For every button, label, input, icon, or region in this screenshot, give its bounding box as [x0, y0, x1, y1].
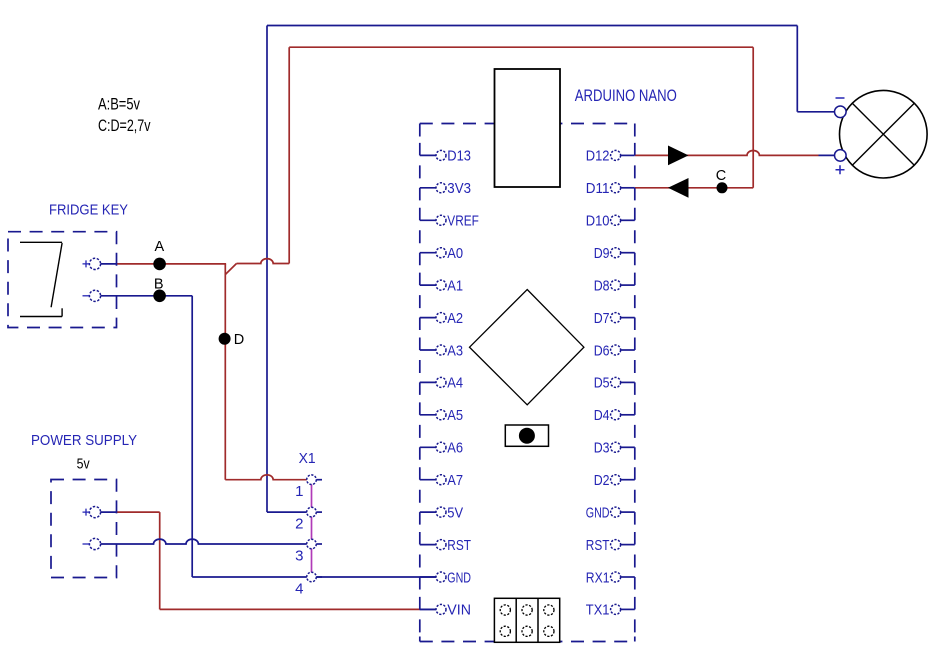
fridge key switch symbol [20, 242, 62, 316]
svg-text:2: 2 [295, 515, 303, 532]
wire: red net A, horizontal into D11 through point C [635, 187, 753, 189]
svg-text:A5: A5 [447, 407, 463, 424]
wire: blue net B, from FRIDGE KEY - terminal [101, 295, 192, 297]
wire: blue net, stub into lamp - terminal [797, 111, 834, 113]
arduino pin A2 (left) [420, 310, 463, 327]
svg-text:D5: D5 [594, 375, 610, 392]
fridge key - terminal [83, 290, 101, 301]
arduino pin D4 (right) [594, 407, 635, 424]
wire: red net A, horizontal into X1 pin 1 with hop [225, 475, 307, 480]
arduino pin VIN (left) [420, 602, 471, 619]
svg-text:A: A [154, 239, 164, 255]
connector X1 pin 2 [295, 507, 322, 532]
diode/arrow on D11 wire (pointing left) [668, 178, 689, 198]
power supply - terminal [83, 538, 101, 549]
arduino pin A4 (left) [420, 375, 463, 392]
svg-text:D11: D11 [586, 180, 610, 197]
fridge key + terminal [83, 258, 117, 269]
connector X1 pin 1 [295, 475, 322, 500]
arduino nano dashed left border with pin hooks [419, 124, 421, 642]
svg-text:D12: D12 [586, 148, 610, 165]
wire: red net A, vertical up to top bus [288, 47, 290, 263]
arduino pin 5V (left) [420, 504, 463, 521]
svg-text:A3: A3 [447, 342, 463, 359]
svg-text:A1: A1 [447, 277, 463, 294]
arduino nano dashed symbol box top border [420, 123, 635, 125]
svg-text:C: C [716, 168, 726, 184]
connector X1 pin 4 [295, 572, 322, 597]
arduino pin D7 (right) [594, 310, 635, 327]
arduino pin RX1 (right) [586, 569, 635, 586]
svg-text:D3: D3 [594, 440, 610, 457]
lamp + terminal [835, 150, 847, 175]
arduino pin A6 (left) [420, 440, 463, 457]
arduino pin TX1 (right) [586, 602, 635, 619]
wire: blue stub into lamp + terminal [819, 154, 835, 156]
wire: red net A, right vertical down to D11 row [752, 47, 754, 188]
arduino pin A1 (left) [420, 277, 463, 294]
svg-text:X1: X1 [299, 450, 316, 467]
arduino pin D8 (right) [594, 277, 635, 294]
wire: red net A, branch horizontal with hop over blue wire [237, 259, 290, 264]
svg-text:D7: D7 [594, 310, 610, 327]
wire: red net, D12 to lamp + with hop over red vertical [635, 151, 819, 156]
svg-text:GND: GND [586, 504, 610, 521]
arduino pin 3V3 (left) [420, 180, 471, 197]
wire: blue net, top horizontal lamp(-) bus [267, 25, 797, 27]
svg-text:A7: A7 [447, 472, 463, 489]
svg-text:A4: A4 [447, 375, 463, 392]
svg-text:3V3: 3V3 [447, 180, 471, 197]
wire: blue stub into VIN pin [420, 608, 436, 610]
node B dot [153, 290, 166, 303]
wire: blue net, right vertical down to lamp - terminal [796, 26, 798, 112]
svg-text:1: 1 [295, 483, 303, 500]
arduino pin D10 (right) [586, 213, 635, 230]
arduino pin D12 (right) [586, 148, 635, 165]
arduino nano dashed right border with pin hooks [634, 124, 636, 642]
node A dot [153, 258, 166, 271]
wire: red net A, top horizontal bus [289, 46, 753, 48]
svg-text:RST: RST [447, 537, 471, 554]
svg-text:D10: D10 [586, 213, 610, 230]
arduino pin A3 (left) [420, 342, 463, 359]
svg-text:FRIDGE KEY: FRIDGE KEY [49, 202, 128, 219]
svg-text:VREF: VREF [447, 213, 479, 230]
wire: blue net, left vertical down to X1 pin2 [266, 26, 268, 513]
svg-text:POWER SUPPLY: POWER SUPPLY [31, 432, 137, 449]
svg-text:RST: RST [586, 537, 610, 554]
wire: red net A, diagonal jog branch [225, 264, 236, 275]
svg-text:A:B=5v: A:B=5v [98, 95, 140, 114]
arduino pin D6 (right) [594, 342, 635, 359]
svg-text:ARDUINO NANO: ARDUINO NANO [575, 86, 677, 105]
svg-text:C:D=2,7v: C:D=2,7v [98, 116, 151, 135]
diode/arrow on D12 wire (pointing right) [668, 146, 689, 166]
wire: red net A, vertical down through point D to X1 pin1 row [224, 264, 226, 480]
arduino chip diamond [470, 290, 584, 405]
arduino pin RST (right) [586, 537, 635, 554]
svg-text:A0: A0 [447, 245, 463, 262]
wire: blue net B, vertical down [191, 296, 193, 577]
wire: blue net B, horizontal through X1 pin4 to GND [192, 576, 436, 578]
arduino pin D13 (left) [420, 148, 471, 165]
power supply + terminal [83, 506, 117, 517]
arduino nano dashed symbol box bottom border [420, 641, 635, 643]
wire: blue net, horizontal into X1 pin 2 [267, 511, 307, 513]
fridge key dashed box [8, 232, 117, 328]
wire: blue net, PS - terminal to X1 pin3 with two hops [101, 539, 307, 544]
arduino pin D3 (right) [594, 440, 635, 457]
svg-text:D13: D13 [447, 148, 471, 165]
svg-text:5v: 5v [77, 456, 90, 473]
arduino reset button [505, 425, 548, 446]
svg-text:GND: GND [447, 569, 471, 586]
arduino pin D2 (right) [594, 472, 635, 489]
lamp - terminal [835, 98, 847, 118]
arduino pin D5 (right) [594, 375, 635, 392]
connector X1 bus line (magenta) [311, 480, 313, 577]
lamp L1 circle with X [840, 90, 928, 178]
svg-text:3: 3 [295, 547, 303, 564]
wire: red net A, from FRIDGE KEY + terminal [117, 263, 227, 265]
svg-text:D8: D8 [594, 277, 610, 294]
svg-text:5V: 5V [447, 504, 463, 521]
wire: red net, POWER SUPPLY + terminal out [117, 511, 160, 513]
arduino pin GND (right) [586, 504, 635, 521]
arduino ICSP header [494, 598, 559, 642]
arduino pin VREF (left) [420, 213, 479, 230]
connector X1 pin 3 [295, 539, 322, 564]
svg-text:D: D [234, 332, 244, 348]
svg-text:D6: D6 [594, 342, 610, 359]
svg-text:B: B [154, 276, 164, 292]
arduino pin D11 (right) [586, 180, 635, 197]
arduino pin RST (left) [420, 537, 471, 554]
power supply dashed box [51, 480, 117, 578]
svg-text:VIN: VIN [447, 602, 471, 619]
svg-text:D9: D9 [594, 245, 610, 262]
svg-text:D2: D2 [594, 472, 610, 489]
node D dot [219, 333, 231, 345]
arduino pin A7 (left) [420, 472, 463, 489]
arduino crystal/module rectangle (top) [495, 69, 561, 187]
wire: red net, vertical down from PS+ [159, 512, 161, 609]
arduino pin D9 (right) [594, 245, 635, 262]
arduino pin A0 (left) [420, 245, 463, 262]
svg-text:A2: A2 [447, 310, 463, 327]
svg-text:RX1: RX1 [586, 569, 610, 586]
svg-text:A6: A6 [447, 440, 463, 457]
arduino pin A5 (left) [420, 407, 463, 424]
arduino pin GND (left) [420, 569, 471, 586]
svg-text:4: 4 [295, 580, 303, 597]
node C dot [717, 182, 728, 193]
svg-text:D4: D4 [594, 407, 610, 424]
wire: red net, horizontal to VIN [160, 608, 420, 610]
svg-text:TX1: TX1 [586, 602, 610, 619]
